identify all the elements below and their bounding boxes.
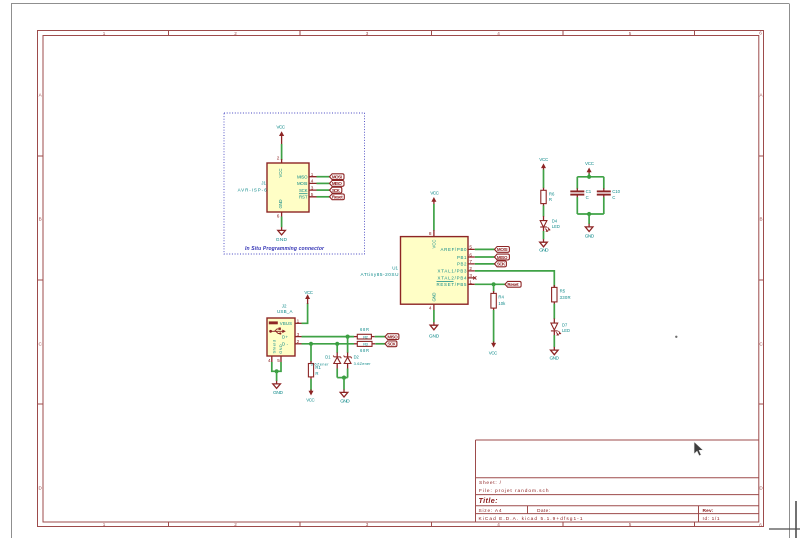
svg-text:1: 1 [311,172,314,177]
svg-text:4: 4 [311,179,314,184]
svg-text:6: 6 [759,31,762,36]
connector J2 USB_A body [267,318,295,356]
svg-text:R: R [315,371,318,376]
svg-text:USB_A: USB_A [277,309,293,314]
svg-text:1: 1 [469,280,472,285]
svg-text:330R: 330R [560,295,571,300]
global label SCK [330,187,342,193]
frame column ticks bottom [169,522,695,527]
svg-text:2: 2 [277,156,280,161]
junction D- at R1 [309,342,313,346]
svg-text:SCK: SCK [299,188,308,193]
wire R6 to D4 [543,206,545,217]
J1 pin stubs right [309,177,317,197]
svg-text:GND: GND [278,344,283,354]
svg-text:SCK: SCK [332,188,341,193]
svg-text:VCC: VCC [276,125,285,130]
svg-text:Rev:: Rev: [703,508,714,514]
svg-text:R3: R3 [363,342,368,347]
mouse cursor [694,442,703,456]
svg-text:C: C [586,195,589,200]
global label MOSI (U1) [495,247,510,253]
capacitor C1 [570,188,584,197]
svg-text:RESET/PB5: RESET/PB5 [437,282,468,287]
wire VCC to J1 pin 2 [281,144,283,160]
svg-text:LED: LED [552,224,560,229]
svg-text:RST: RST [299,195,308,200]
paper edge left [11,4,13,538]
wire to GND (zeners) [343,378,345,390]
svg-text:7: 7 [469,259,472,264]
wire D+ line [302,336,355,338]
svg-text:R6: R6 [549,192,555,197]
svg-text:C: C [612,195,615,200]
svg-text:In Situ Programming connector: In Situ Programming connector [245,246,325,252]
frame row ticks left [38,156,44,404]
J2 pin 3 D+ stub [295,336,302,338]
svg-text:D4: D4 [552,219,558,224]
svg-text:68R: 68R [360,327,369,332]
wire R4 to VCC [493,310,495,343]
svg-text:VCC: VCC [430,191,439,196]
svg-text:MOSI: MOSI [497,247,508,252]
wire RESET to junction and label [475,283,505,285]
svg-text:2: 2 [234,522,237,527]
svg-text:GND: GND [340,398,350,404]
wire U1 to GND [433,310,435,322]
svg-text:6: 6 [469,252,472,257]
svg-text:VCC: VCC [278,169,283,178]
svg-text:J2: J2 [282,304,287,309]
svg-text:5: 5 [629,31,632,36]
wire D- line [302,343,355,345]
wire zener bottom rail [337,377,347,379]
resistor R1 [308,361,313,380]
wire R5 to D7 [553,304,555,319]
svg-text:1: 1 [103,31,106,36]
svg-text:File: projet random.sch: File: projet random.sch [479,488,549,494]
svg-text:3: 3 [297,332,300,337]
svg-text:2: 2 [469,266,472,271]
power VCC (U1) [430,191,439,204]
svg-text:4: 4 [268,358,271,363]
svg-text:KiCad E.D.A. kicad 5.1.9+dfsg: KiCad E.D.A. kicad 5.1.9+dfsg1-1 [479,516,583,522]
svg-text:PB1: PB1 [457,255,467,260]
svg-text:3.6Zener: 3.6Zener [311,361,330,366]
svg-text:3: 3 [311,185,314,190]
svg-text:Id: 1/1: Id: 1/1 [703,516,720,522]
svg-text:4: 4 [497,31,500,36]
junction D- at D1 [335,342,339,346]
svg-text:R5: R5 [560,289,566,294]
svg-text:GND: GND [429,334,440,340]
wire R2 to label [375,336,385,338]
J1 pin 6 stub bottom [281,212,283,217]
svg-text:1: 1 [297,318,300,323]
svg-text:GND: GND [585,234,595,240]
wire PB2 to label [475,263,495,265]
wire C1 top lead [576,177,578,189]
junction shield-gnd [275,369,279,373]
wire SCK pin to label [317,189,330,191]
svg-text:Date:: Date: [537,508,550,514]
J2 shield+gnd pin stubs bottom [272,356,281,362]
junction cap bottom [587,212,591,216]
no-connect X on pin 3 [473,276,476,279]
svg-text:3.6Zener: 3.6Zener [354,361,372,366]
svg-text:Title:: Title: [479,496,499,505]
global label MOSI [330,174,345,180]
svg-text:D1: D1 [325,354,331,359]
power VCC (J1 top) [276,125,285,144]
paper edge top [11,3,789,5]
svg-text:2: 2 [234,31,237,36]
svg-text:4: 4 [497,522,500,527]
stray origin dot [675,336,677,338]
global label Reset [330,194,345,200]
frame column numbers bottom [103,522,763,528]
svg-text:2: 2 [297,339,300,344]
wire D4 to GND [543,231,545,239]
U1 pin 4 GND stub [433,304,435,310]
svg-text:1: 1 [103,522,106,527]
svg-text:U1: U1 [392,266,398,271]
svg-text:MOSI: MOSI [297,181,308,186]
svg-text:SCK: SCK [387,342,396,347]
ground (U1) [429,322,440,339]
svg-text:MISO: MISO [387,334,398,339]
svg-text:J1: J1 [261,181,266,186]
svg-text:XTAL1/PB3: XTAL1/PB3 [438,269,468,274]
wire VCC to cap rail [588,174,590,177]
svg-text:68R: 68R [360,348,369,353]
svg-text:5: 5 [311,192,314,197]
svg-text:MOSI: MOSI [332,174,342,179]
wire VBUS to VCC [302,303,308,323]
svg-text:VCC: VCC [489,350,498,355]
ground (zeners) [340,389,350,404]
canvas crosshair [769,528,800,530]
wire PB1 to label [475,256,495,258]
connector J1 AVR-ISP-6 body [267,163,309,212]
svg-text:GND: GND [550,356,560,362]
svg-text:4: 4 [429,306,432,311]
J2 pin 1 VBUS stub [295,322,302,324]
svg-text:6: 6 [277,214,280,219]
svg-text:VCC: VCC [431,240,436,249]
MCU U1 ATtiny85 body [401,237,469,305]
wire to GND (caps) [588,214,590,224]
paper edge right [789,4,791,538]
wire C10 bottom lead [603,197,605,214]
frame column ticks top [169,31,695,36]
wire cap top rail [577,176,604,178]
svg-text:5: 5 [629,522,632,527]
wire VCC to R6 [543,170,545,189]
wire to GND (J2) [276,371,278,381]
svg-text:MISO: MISO [297,174,308,179]
svg-text:GND: GND [273,390,284,396]
wire R1 to VCC [310,379,312,391]
power VCC (R6) [539,157,549,170]
svg-text:VBUS: VBUS [280,321,292,326]
wire C10 top lead [603,177,605,189]
svg-text:GND: GND [431,293,436,302]
wire D- to R1 [310,344,312,362]
resistor R2 [354,334,375,339]
svg-text:3: 3 [469,273,472,278]
global label MISO (U1) [495,254,510,260]
ground (D7) [550,347,560,362]
frame row letters left [39,93,43,491]
power VCC inverted (R1) [306,390,315,403]
connector J1 pin 2 stub [281,159,283,163]
svg-text:Reset: Reset [507,282,519,287]
junction D+ at D2 [346,335,350,339]
svg-text:3: 3 [366,522,369,527]
frame row ticks right [759,156,764,404]
svg-text:ATtiny85-20SU: ATtiny85-20SU [361,272,400,277]
U1 right pin stubs [468,249,475,284]
svg-text:MISO: MISO [332,181,342,186]
ground (caps) [585,224,595,240]
svg-text:5: 5 [277,358,280,363]
svg-text:Shield: Shield [271,340,276,354]
wire XTAL1/PB3 long [475,271,555,288]
junction cap top [587,175,591,179]
junction zener gnd [342,376,346,380]
svg-text:AREF/PB0: AREF/PB0 [441,247,468,252]
wire R3 to label [375,343,385,345]
svg-text:R4: R4 [498,295,504,300]
title block outline [476,440,759,522]
svg-text:LED: LED [562,328,570,333]
USB icon trident [271,329,283,334]
ISP note dotted box [224,113,365,254]
power VCC inverted (R4) [489,342,498,356]
svg-text:Sheet: /: Sheet: / [479,480,502,486]
svg-text:SCK: SCK [497,262,506,267]
svg-text:XTAL2/PB4: XTAL2/PB4 [438,276,468,281]
svg-text:8: 8 [429,231,432,236]
svg-text:VCC: VCC [304,290,313,295]
svg-text:GND: GND [539,247,549,253]
svg-text:Size: A4: Size: A4 [479,508,502,514]
wire PB0 to label [475,248,495,250]
LED D4 [540,216,550,232]
svg-text:AVR-ISP-6: AVR-ISP-6 [238,187,267,192]
resistor R3 [354,341,375,346]
svg-text:6: 6 [759,523,762,528]
svg-text:10k: 10k [498,301,506,306]
resistor R4 [491,291,496,311]
svg-text:D+: D+ [282,335,288,340]
LED D7 [551,319,561,336]
wire D7 to GND [553,335,555,347]
ground (D4) [539,239,549,253]
wire MOSI pin to label [317,182,330,184]
global label MISO (usb) [385,334,399,340]
svg-text:C10: C10 [612,189,620,194]
USB icon bar [269,321,278,324]
wire cap bottom rail [577,213,604,215]
resistor R6 [541,188,546,206]
ground (J1) [276,227,288,243]
svg-text:R: R [549,197,552,202]
power VCC (caps) [585,161,595,174]
frame column numbers top [103,31,763,36]
svg-text:VCC: VCC [306,397,315,402]
svg-text:5: 5 [469,245,472,250]
J2 pin 2 D- stub [295,343,302,345]
svg-text:VCC: VCC [539,157,549,162]
frame row letters right [759,93,763,491]
wire J1 to GND [281,217,283,228]
diode D1 zener [333,344,341,378]
wire RST pin to label [317,196,330,198]
wire MISO pin to label [317,176,330,178]
global label SCK (usb) [385,341,397,347]
svg-text:B: B [39,217,42,222]
svg-text:VCC: VCC [585,161,595,166]
svg-text:C1: C1 [586,189,592,194]
U1 pin 8 stub [433,230,435,237]
wire shield-gnd join [272,362,281,371]
svg-text:GND: GND [278,200,283,209]
wire RESET to R4 [493,284,495,291]
svg-text:GND: GND [276,237,288,243]
wire VCC to U1 [433,204,435,231]
svg-text:Reset: Reset [332,195,343,200]
ground (J2) [273,381,284,396]
power VCC (J2) [304,290,313,304]
capacitor C10 [597,188,611,197]
global label Reset (U1) [505,281,521,287]
wire C1 bottom lead [576,197,578,214]
svg-text:MISO: MISO [497,255,508,260]
junction RESET [492,282,496,286]
global label SCK (U1) [495,261,507,267]
svg-text:PB2: PB2 [457,262,467,267]
diode D2 zener [344,337,352,378]
svg-text:D2: D2 [354,354,360,359]
global label MISO [330,181,345,187]
resistor R5 [552,285,557,304]
svg-text:3: 3 [366,31,369,36]
svg-text:R2: R2 [363,334,368,339]
svg-text:B: B [759,217,762,222]
